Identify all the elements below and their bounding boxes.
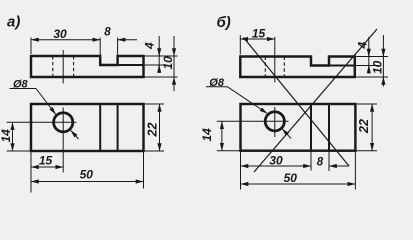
view B top: hole centerline [274,37,276,83]
dimension 15 (view B top) [240,35,274,55]
view B top: hidden hole line left [264,57,266,78]
view A front: slot edge left [99,104,101,151]
svg-text:22: 22 [357,119,371,134]
cross-out line descending (view B) [244,38,350,167]
dimension 50 (view A bottom) [31,151,144,189]
svg-text:30: 30 [53,27,67,41]
svg-text:Ø8: Ø8 [209,77,225,89]
cross-out line ascending (view B) [254,29,377,172]
view B front: slot edge right [328,104,330,151]
dimension 4 (view A right) [144,36,178,73]
dimension 30 (view A top) [31,38,100,56]
dimension 10 (view B right) [355,35,388,87]
dimension 4 (view B right) [355,37,388,74]
dimension 15 (view A bottom) [31,151,63,193]
svg-text:30: 30 [269,153,283,167]
view A front: hole centerline vertical [62,108,64,173]
dimension 22 (view B right) [355,104,377,151]
view A top: step edge line [118,64,144,66]
dimension 10 (view A right) [144,36,178,91]
svg-text:14: 14 [200,128,214,142]
dimension 8 (view A top) [118,38,137,56]
view A top: hole centerline [62,50,64,84]
svg-text:15: 15 [39,154,53,168]
svg-text:Ø8: Ø8 [13,78,29,90]
view B top: hidden hole line right [283,57,285,78]
svg-text:10: 10 [161,56,175,70]
view B front: hole centerline vertical [274,107,276,137]
view A top: hidden hole line right [73,56,75,77]
view A front: slot edge right [117,104,119,151]
svg-text:б): б) [217,14,231,31]
svg-text:10: 10 [371,60,385,74]
svg-text:8: 8 [104,27,111,39]
view B front: hole circle [265,112,284,131]
view B front: hole centerline horizontal [217,120,289,122]
view B front: slot edge left [310,104,312,151]
view A front: hole circle [54,113,73,132]
dimension D8 (view B) leader [206,87,291,139]
view A front: rectangle [31,104,144,151]
svg-text:15: 15 [252,27,266,41]
svg-text:14: 14 [0,129,13,143]
svg-text:50: 50 [284,171,298,185]
view A top: hidden hole line left [52,56,54,77]
dimension 30 (view B bottom) [241,151,312,190]
view B front: rectangle [241,104,356,151]
dimension 50 (view B bottom) [241,151,356,190]
dimension 8 (view B bottom) [329,151,349,171]
view A top: stepped bar outline [31,56,144,77]
dimension 22 (view A right) [144,104,165,151]
svg-text:22: 22 [146,123,160,138]
svg-text:50: 50 [80,168,94,182]
svg-text:а): а) [7,14,20,31]
svg-text:8: 8 [317,156,324,168]
dimension D8 (view A) leader [10,89,79,140]
view B top: step edge line [329,65,355,67]
view B top: stepped bar outline [240,57,354,78]
dimension 14 (view B left) [217,121,241,150]
svg-text:4: 4 [143,42,157,50]
dimension 14 (view A left) [7,122,31,151]
view A front: hole centerline horizontal [7,121,77,123]
